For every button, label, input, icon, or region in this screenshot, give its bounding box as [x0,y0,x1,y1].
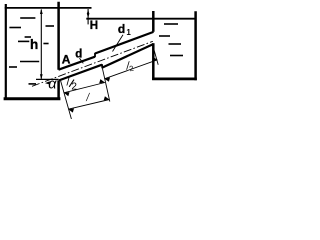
svg-text:d: d [118,22,125,36]
svg-text:d: d [75,48,82,60]
svg-text:h: h [30,37,38,52]
svg-text:2: 2 [71,82,77,93]
svg-text:H: H [90,20,98,32]
svg-text:1: 1 [126,28,131,37]
svg-text:A: A [62,53,71,67]
svg-text:α: α [48,77,57,93]
